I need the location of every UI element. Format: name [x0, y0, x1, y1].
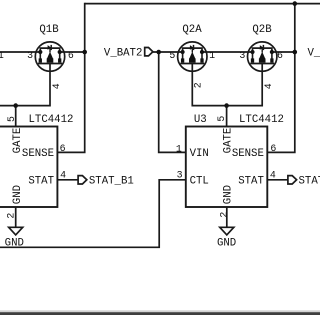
svg-text:3: 3	[177, 169, 183, 180]
svg-text:2: 2	[193, 82, 204, 88]
wire U3 GND pin 2	[226, 207, 228, 227]
svg-text:4: 4	[270, 169, 276, 180]
bottom separator line	[0, 310, 320, 312]
svg-text:3: 3	[27, 50, 33, 61]
svg-text:GND: GND	[217, 237, 236, 249]
wire left vertical drop to SENSE of U2	[57, 3, 84, 153]
svg-text:6: 6	[270, 143, 276, 154]
node junction dot gate rail U2	[13, 103, 18, 108]
wire V_BAT2 to Q2A pin 5	[153, 51, 183, 53]
node STAT_B1 hierarchical label	[78, 176, 87, 184]
wire VIN vertical from V_BAT2 node	[159, 52, 186, 152]
svg-text:4: 4	[60, 169, 66, 180]
wire U2 pin 5 GATE	[15, 106, 17, 127]
wire left rail to Q1B pin 3	[0, 51, 40, 53]
wire Q2B gate down	[227, 64, 263, 106]
transistor Q1B	[35, 42, 64, 71]
node STAT_B2 hierarchical label (clipped)	[288, 176, 297, 184]
transistor Q2A	[178, 42, 207, 71]
svg-text:CTL: CTL	[190, 176, 209, 188]
wire CTL route to left edge	[0, 180, 186, 248]
wire gate rail left (Q1B gate to U2 pin 5 junction)	[0, 64, 50, 106]
node junction dot Q2B.6	[293, 50, 298, 55]
svg-text:V_BAT2: V_BAT2	[104, 47, 142, 59]
svg-text:6: 6	[68, 50, 74, 61]
svg-text:1: 1	[176, 144, 182, 155]
svg-text:1: 1	[0, 50, 4, 61]
node junction dot V_BAT2	[156, 50, 161, 55]
svg-text:1: 1	[209, 50, 215, 61]
svg-text:Q1B: Q1B	[39, 24, 59, 36]
ground symbol U3	[220, 227, 234, 235]
svg-text:LTC4412: LTC4412	[239, 114, 284, 126]
svg-text:GND: GND	[223, 185, 235, 204]
op-amp U2 LTC4412 box (left, partially cut)	[0, 127, 57, 208]
node junction dot top right	[293, 1, 298, 6]
node junction dot gate rail U3	[224, 103, 229, 108]
node V_BAT2 hierarchical label	[145, 48, 153, 56]
svg-text:V_B: V_B	[308, 47, 320, 59]
svg-text:3: 3	[239, 50, 245, 61]
wire U3 pin 5 GATE	[226, 106, 228, 127]
svg-text:4: 4	[263, 83, 274, 89]
svg-text:4: 4	[51, 83, 62, 89]
wire Q2A pin 1 to Q2B pin 3	[202, 51, 253, 53]
svg-text:SENSE: SENSE	[22, 148, 54, 160]
svg-text:5: 5	[169, 50, 175, 61]
wire Q2B pin 6 to right vertical	[272, 51, 295, 53]
svg-text:Q2B: Q2B	[252, 24, 272, 36]
svg-text:5: 5	[216, 116, 227, 122]
op-amp U3 LTC4412 box	[186, 127, 267, 208]
wire right vertical to SENSE of U3	[267, 3, 295, 153]
transistor Q2B	[248, 42, 277, 71]
wire Q2A gate down	[192, 64, 226, 106]
svg-text:STAT_: STAT_	[299, 176, 320, 188]
wire top rail	[85, 3, 320, 5]
svg-text:STAT: STAT	[28, 176, 54, 188]
svg-text:GND: GND	[5, 237, 24, 249]
svg-text:LTC4412: LTC4412	[29, 114, 74, 126]
svg-text:Q2A: Q2A	[182, 24, 202, 36]
svg-text:VIN: VIN	[190, 148, 209, 160]
svg-text:2: 2	[219, 212, 230, 218]
svg-text:5: 5	[6, 116, 17, 122]
wire Q1B pin 6 to vertical	[60, 51, 85, 53]
svg-text:STAT_B1: STAT_B1	[89, 176, 134, 188]
svg-text:6: 6	[277, 50, 283, 61]
ground symbol U2	[9, 227, 23, 235]
svg-text:U3: U3	[194, 114, 207, 126]
wire U2 GND pin 2	[15, 207, 17, 227]
svg-text:SENSE: SENSE	[232, 148, 264, 160]
svg-text:GND: GND	[12, 185, 24, 204]
svg-text:STAT: STAT	[238, 176, 264, 188]
svg-text:6: 6	[60, 143, 66, 154]
wire U3 STAT pin 4	[267, 179, 288, 181]
wire U2 STAT pin 4	[57, 179, 78, 181]
svg-text:2: 2	[5, 213, 16, 219]
node junction dot Q1B.6/top rail	[82, 50, 87, 55]
